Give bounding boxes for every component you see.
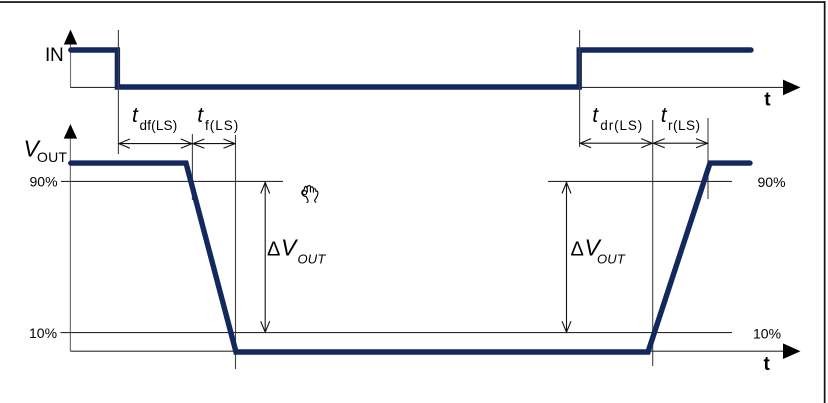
construction line at IN rising edge x=580	[579, 30, 581, 147]
dimension arrow t_r(LS)	[653, 139, 708, 148]
svg-text:10%: 10%	[29, 325, 57, 341]
dimension arrow t_df(LS)	[118, 139, 192, 148]
svg-text:t: t	[764, 90, 771, 111]
construction line at 90% rise crossing x=708	[707, 118, 709, 199]
dV arrow left	[261, 182, 270, 332]
t axis (top) arrowhead	[783, 80, 801, 96]
V_OUT axis vertical	[69, 136, 71, 351]
svg-text:df(LS): df(LS)	[140, 118, 178, 133]
V_OUT waveform trace	[71, 163, 750, 352]
svg-text:f(LS): f(LS)	[205, 118, 239, 133]
construction line at 10% rise crossing x=652.7	[652, 120, 654, 366]
svg-text:t: t	[592, 104, 599, 127]
svg-text:r(LS): r(LS)	[668, 118, 701, 133]
svg-text:90%: 90%	[30, 173, 58, 189]
dimension arrow t_dr(LS)	[580, 139, 653, 148]
svg-text:10%: 10%	[753, 325, 781, 341]
svg-text:V: V	[281, 234, 299, 260]
construction line at IN falling edge x=118	[117, 30, 119, 154]
10% line	[61, 332, 733, 334]
svg-text:Δ: Δ	[571, 238, 584, 260]
IN axis vertical	[70, 42, 72, 88]
page top border	[0, 1, 826, 3]
svg-text:90%: 90%	[758, 174, 786, 190]
90% line right segment	[548, 180, 732, 182]
svg-text:IN: IN	[45, 45, 63, 66]
svg-text:OUT: OUT	[597, 252, 626, 267]
svg-text:OUT: OUT	[37, 149, 67, 165]
t axis (bottom) arrowhead	[783, 343, 801, 359]
dV arrow right	[562, 182, 571, 332]
svg-text:Δ: Δ	[267, 238, 280, 260]
IN axis arrowhead	[64, 30, 77, 45]
IN waveform trace	[71, 50, 751, 87]
V_OUT axis arrowhead	[64, 124, 77, 139]
svg-text:dr(LS): dr(LS)	[600, 118, 643, 133]
hand cursor icon (grab hand)	[302, 186, 318, 203]
t axis (bottom)	[70, 350, 786, 352]
svg-text:t: t	[764, 354, 771, 375]
svg-text:OUT: OUT	[298, 252, 327, 267]
t axis (top)	[71, 86, 787, 88]
svg-text:t: t	[132, 104, 139, 127]
construction line at fall bottom x=235.5	[235, 135, 237, 369]
svg-text:t: t	[197, 104, 204, 127]
page right border	[824, 1, 826, 403]
90% line left segment	[61, 180, 283, 182]
construction line at 90% fall crossing x=192.4	[191, 134, 193, 200]
dimension arrow t_f(LS)	[192, 139, 235, 148]
svg-text:t: t	[661, 104, 668, 127]
